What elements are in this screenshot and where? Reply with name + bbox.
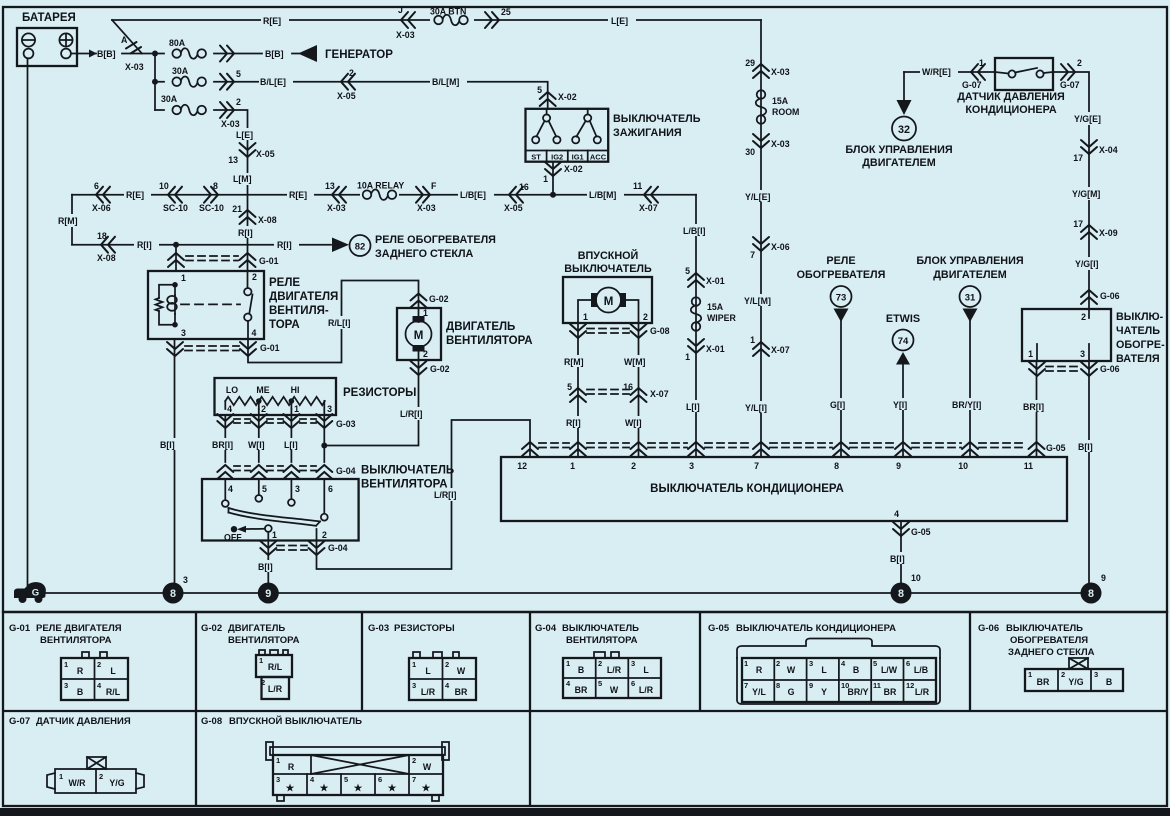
svg-text:ST: ST (531, 153, 541, 162)
svg-text:Y/G: Y/G (1068, 677, 1083, 687)
svg-text:5: 5 (567, 382, 572, 392)
svg-text:30A BTN: 30A BTN (430, 7, 466, 17)
fan switch SW2 (202, 479, 359, 543)
connector 25 top (485, 12, 499, 28)
svg-text:L/R: L/R (268, 684, 283, 694)
legend G-06 defogger switch (978, 623, 1123, 691)
svg-text:1: 1 (59, 772, 63, 781)
connector G-08 pin1 (570, 324, 586, 338)
label B[I] AC (888, 552, 912, 564)
connector G-01 below relay right (240, 342, 256, 356)
svg-text:B[B]: B[B] (97, 49, 116, 59)
svg-text:ЗАДНЕГО СТЕКЛА: ЗАДНЕГО СТЕКЛА (375, 248, 474, 260)
svg-text:7: 7 (744, 681, 748, 690)
svg-text:G: G (32, 588, 39, 599)
svg-text:X-03: X-03 (771, 67, 790, 77)
svg-text:1: 1 (570, 461, 575, 471)
connector 1 X-07 (753, 342, 769, 356)
svg-text:ОБОГРЕ-: ОБОГРЕ- (1116, 339, 1165, 351)
node 82 rear defogger relay (350, 235, 371, 256)
svg-text:ETWIS: ETWIS (886, 313, 920, 325)
svg-text:3: 3 (1080, 349, 1085, 359)
svg-text:ДВИГАТЕЛЬ: ДВИГАТЕЛЬ (228, 623, 285, 634)
svg-text:РЕЛЕ ДВИГАТЕЛЯ: РЕЛЕ ДВИГАТЕЛЯ (36, 623, 122, 634)
svg-text:82: 82 (355, 242, 366, 253)
svg-text:8: 8 (898, 588, 904, 600)
svg-text:ВЕНТИЛЯТОРА: ВЕНТИЛЯТОРА (446, 335, 533, 347)
label R/L[I] (327, 316, 360, 329)
svg-text:БАТАРЕЯ: БАТАРЕЯ (22, 12, 76, 24)
svg-text:G-01: G-01 (260, 343, 280, 353)
svg-text:ДВИГАТЕЛЬ: ДВИГАТЕЛЬ (446, 321, 515, 333)
svg-text:11: 11 (633, 181, 642, 191)
svg-text:X-09: X-09 (1099, 228, 1118, 238)
svg-text:ЧАТЕЛЬ: ЧАТЕЛЬ (1116, 325, 1160, 337)
svg-text:R: R (756, 665, 763, 675)
connector 13 X-03 (332, 187, 346, 203)
svg-text:80A: 80A (169, 38, 186, 48)
svg-text:5: 5 (873, 659, 877, 668)
svg-text:2: 2 (97, 660, 101, 669)
svg-text:8: 8 (213, 181, 218, 191)
svg-text:25: 25 (501, 7, 511, 17)
svg-text:X-06: X-06 (92, 203, 111, 213)
svg-text:ВЕНТИЛЯТОРА: ВЕНТИЛЯТОРА (566, 635, 638, 646)
wire 30A row3 L[E] (155, 110, 248, 271)
svg-text:G-05: G-05 (1046, 443, 1066, 453)
svg-text:G-06: G-06 (978, 623, 999, 634)
bottom black strip (0, 808, 1170, 816)
svg-text:G: G (788, 687, 795, 697)
svg-text:1: 1 (685, 352, 690, 362)
legend G-02 fan motor (201, 623, 300, 699)
svg-text:15A: 15A (772, 96, 789, 106)
svg-text:1: 1 (1028, 670, 1032, 679)
wire 30A row2 B/L[E] (155, 82, 548, 109)
svg-text:G-04: G-04 (328, 543, 348, 553)
connector 11 X-07 (644, 187, 658, 203)
svg-text:ME: ME (256, 385, 269, 395)
svg-text:5: 5 (537, 85, 542, 95)
svg-text:3: 3 (64, 681, 68, 690)
wire dashed G-04 lower link (277, 545, 307, 547)
svg-text:15A: 15A (707, 302, 724, 312)
connector 16 X-07 (631, 388, 647, 402)
svg-text:L/W: L/W (881, 665, 898, 675)
label Y/L[I] (744, 401, 778, 413)
svg-text:L/R: L/R (639, 685, 654, 695)
svg-text:1: 1 (294, 404, 299, 414)
svg-text:КОНДИЦИОНЕРА: КОНДИЦИОНЕРА (965, 104, 1057, 116)
svg-text:6: 6 (906, 659, 910, 668)
svg-text:2: 2 (99, 772, 103, 781)
fuse 15A ROOM (756, 90, 766, 124)
svg-text:X-05: X-05 (337, 91, 356, 101)
svg-text:2: 2 (261, 404, 266, 414)
resistor block R1 (215, 378, 337, 415)
svg-text:ВЕНТИЛЯТОРА: ВЕНТИЛЯТОРА (228, 635, 300, 646)
svg-text:X-03: X-03 (396, 30, 415, 40)
svg-text:R: R (77, 666, 84, 676)
svg-text:ВЫКЛЮЧАТЕЛЬ: ВЫКЛЮЧАТЕЛЬ (564, 263, 652, 275)
label BR[I] defogger (1022, 400, 1051, 412)
svg-text:16: 16 (623, 382, 633, 392)
svg-text:5: 5 (685, 266, 690, 276)
svg-text:5: 5 (598, 679, 602, 688)
legend grid lines (3, 612, 1167, 806)
label L[E] top (608, 14, 636, 26)
svg-text:1: 1 (412, 660, 416, 669)
legend G-01 fan motor relay (9, 623, 128, 700)
svg-text:★: ★ (286, 783, 295, 794)
wire dashed G-01 lower link (185, 345, 239, 347)
label L[E] column (234, 128, 260, 140)
label B[I] fan switch (256, 560, 280, 572)
wire left R[M] branch (71, 195, 73, 245)
svg-text:F: F (431, 181, 437, 191)
connector 5 X-01 (688, 273, 704, 287)
svg-text:X-01: X-01 (706, 276, 725, 286)
svg-text:X-07: X-07 (650, 389, 669, 399)
svg-text:2: 2 (445, 660, 449, 669)
svg-text:B/L[M]: B/L[M] (432, 77, 459, 87)
svg-text:X-03: X-03 (221, 119, 240, 129)
label W[I] intake (623, 416, 650, 428)
svg-text:L/B: L/B (914, 665, 928, 675)
legend G-04 fan switch (535, 623, 661, 698)
connector G-05 pin11 (1029, 442, 1045, 456)
svg-text:R/L: R/L (268, 662, 283, 672)
svg-text:ОБОГРЕВАТЕЛЯ: ОБОГРЕВАТЕЛЯ (1010, 635, 1088, 646)
wire battery negative to ground bus (27, 58, 29, 592)
svg-text:1: 1 (543, 174, 548, 184)
connector G-06 pin3 (1081, 362, 1097, 376)
wire BR/Y[I] column pin10 (969, 320, 971, 457)
label W[M] (622, 355, 654, 367)
connector G-04 pin6 (316, 465, 332, 479)
svg-text:R[E]: R[E] (126, 190, 144, 200)
label Y/G[M] (1071, 187, 1107, 200)
svg-text:1: 1 (583, 312, 588, 322)
svg-text:2: 2 (349, 68, 354, 78)
wire dashed G-01 link (186, 255, 238, 257)
svg-text:3: 3 (181, 328, 186, 338)
svg-text:9: 9 (1101, 573, 1106, 583)
svg-text:L[M]: L[M] (233, 174, 252, 184)
battery B1 (17, 12, 77, 66)
connector 5 X-07 (570, 388, 586, 402)
label Y/G[E] (1073, 112, 1106, 125)
svg-text:2: 2 (322, 530, 327, 540)
svg-text:ВЕНТИЛЯ-: ВЕНТИЛЯ- (269, 305, 329, 317)
svg-text:ВПУСКНОЙ: ВПУСКНОЙ (578, 249, 639, 262)
svg-text:9: 9 (809, 681, 813, 690)
label L[I] (684, 400, 706, 412)
svg-text:ЗАДНЕГО СТЕКЛА: ЗАДНЕГО СТЕКЛА (1008, 647, 1095, 658)
label Y/L[M] (743, 294, 779, 306)
svg-text:ГЕНЕРАТОР: ГЕНЕРАТОР (325, 49, 393, 61)
wire L/R[I] motor to junction (324, 360, 418, 446)
svg-text:2: 2 (643, 312, 648, 322)
svg-text:3: 3 (412, 681, 416, 690)
connector G-03 pin2 (251, 414, 267, 428)
svg-text:6: 6 (631, 679, 635, 688)
label R[E] right (287, 188, 314, 200)
svg-text:R[E]: R[E] (289, 190, 307, 200)
wire pressure switch to arrow 32 (903, 72, 905, 100)
connector G-05 pin10 (962, 442, 978, 456)
svg-text:X-03: X-03 (771, 139, 790, 149)
label R[E] top (261, 14, 289, 26)
svg-text:BR[I]: BR[I] (1023, 402, 1044, 412)
svg-text:G-08: G-08 (650, 326, 670, 336)
label L/R[I] fan sw (432, 488, 466, 501)
ground 8 left (163, 583, 184, 604)
connector G-05 below AC (893, 522, 909, 536)
main R[E] distribution wire (72, 194, 696, 196)
connector 5 X-02 ignition feed (540, 92, 556, 106)
connector 10 SC-10 (168, 187, 182, 203)
svg-text:5: 5 (344, 775, 348, 784)
connector G-05 pin1 (570, 442, 586, 456)
label BR[I] (211, 438, 240, 450)
connector 1 G-07 (971, 64, 985, 80)
connector G-06 pin1 (1029, 362, 1045, 376)
svg-text:★: ★ (388, 783, 397, 794)
svg-text:L: L (110, 666, 116, 676)
svg-text:31: 31 (965, 293, 976, 304)
connector F X-03 (416, 187, 430, 203)
connector 7 X-06 (753, 237, 769, 251)
svg-text:B/L[E]: B/L[E] (260, 77, 286, 87)
svg-text:ВЫКЛЮЧАТЕЛЬ: ВЫКЛЮЧАТЕЛЬ (613, 113, 701, 125)
connector G-05 pin12 (522, 442, 538, 456)
svg-text:W: W (610, 685, 619, 695)
svg-text:SC-10: SC-10 (199, 203, 224, 213)
svg-text:ВЕНТИЛЯТОРА: ВЕНТИЛЯТОРА (40, 635, 112, 646)
svg-text:73: 73 (836, 293, 847, 304)
svg-text:1: 1 (750, 335, 755, 345)
legend G-05 AC switch (708, 623, 940, 704)
svg-text:Y/L[E]: Y/L[E] (745, 192, 770, 202)
svg-text:4: 4 (228, 484, 233, 494)
svg-text:10: 10 (958, 461, 968, 471)
connector A X-03 on diagonal (126, 42, 141, 54)
label R[I] left (134, 238, 159, 250)
svg-text:G-06: G-06 (1100, 364, 1120, 374)
svg-text:BR: BR (455, 687, 468, 697)
connector 17 X-04 (1081, 140, 1097, 154)
connector G-08 pin2 (631, 324, 647, 338)
svg-text:BR/Y: BR/Y (847, 687, 868, 697)
node engine control module 32 (892, 117, 916, 141)
svg-text:ОБОГРЕВАТЕЛЯ: ОБОГРЕВАТЕЛЯ (797, 269, 886, 281)
svg-text:Y: Y (821, 687, 827, 697)
fuse 30A row3 (172, 105, 206, 115)
label B/L[M] (430, 75, 467, 87)
svg-text:29: 29 (745, 58, 755, 68)
svg-text:2: 2 (1077, 58, 1082, 68)
ground bus wire (40, 592, 1091, 594)
svg-text:BR: BR (575, 685, 588, 695)
label R[M] (57, 214, 84, 227)
connector 21 X-08 (240, 210, 256, 224)
svg-text:21: 21 (232, 204, 242, 214)
svg-text:R[I]: R[I] (277, 240, 292, 250)
svg-text:G-07: G-07 (1060, 80, 1080, 90)
svg-text:L/B[I]: L/B[I] (683, 226, 706, 236)
label R[E] mid (124, 188, 151, 200)
svg-text:X-04: X-04 (1099, 145, 1118, 155)
connector G-05 pin3 (688, 442, 704, 456)
svg-text:LO: LO (226, 385, 238, 395)
svg-text:L[I]: L[I] (284, 440, 298, 450)
wire ignition output (552, 162, 554, 195)
svg-text:9: 9 (896, 461, 901, 471)
outer frame of schematic area (3, 7, 1167, 612)
svg-text:2: 2 (631, 461, 636, 471)
svg-text:РЕЛЕ: РЕЛЕ (269, 277, 300, 289)
svg-text:W: W (457, 666, 466, 676)
svg-text:L[I]: L[I] (686, 402, 700, 412)
connector 1 X-01 (688, 339, 704, 353)
svg-text:B[I]: B[I] (890, 554, 905, 564)
svg-text:L: L (821, 665, 827, 675)
svg-text:74: 74 (898, 336, 909, 347)
svg-text:ВЫКЛЮЧАТЕЛЬ КОНДИЦИОНЕРА: ВЫКЛЮЧАТЕЛЬ КОНДИЦИОНЕРА (650, 483, 844, 495)
svg-text:ДВИГАТЕЛЕМ: ДВИГАТЕЛЕМ (933, 269, 1007, 281)
AC pressure switch SW4 (995, 58, 1053, 90)
svg-text:РЕЛЕ: РЕЛЕ (826, 255, 855, 267)
svg-text:L/R[I]: L/R[I] (400, 409, 423, 419)
svg-text:1: 1 (1028, 349, 1033, 359)
svg-text:1: 1 (181, 273, 186, 283)
svg-text:BR/Y[I]: BR/Y[I] (952, 400, 981, 410)
label W/R[E] (920, 65, 958, 77)
AC switch box SW6 (501, 457, 1067, 521)
svg-text:L/R: L/R (421, 687, 436, 697)
connector G-01 left (168, 253, 184, 267)
R[I] distribution wire (72, 244, 331, 246)
svg-text:X-08: X-08 (97, 253, 116, 263)
wire dashed G-04 links (234, 465, 250, 467)
svg-text:BR[I]: BR[I] (212, 440, 233, 450)
connector G-04 pin1 below (260, 541, 276, 555)
svg-text:B: B (77, 687, 83, 697)
svg-text:W: W (787, 665, 796, 675)
svg-text:X-03: X-03 (327, 203, 346, 213)
connector 8 SC-10 (204, 187, 218, 203)
svg-text:1: 1 (259, 656, 263, 665)
svg-text:BR: BR (1037, 677, 1050, 687)
svg-text:3: 3 (183, 575, 188, 585)
svg-text:3: 3 (327, 404, 332, 414)
svg-text:M: M (414, 330, 424, 342)
svg-text:РЕЛЕ ОБОГРЕВАТЕЛЯ: РЕЛЕ ОБОГРЕВАТЕЛЯ (375, 234, 496, 246)
svg-text:Y[I]: Y[I] (893, 400, 907, 410)
svg-text:X-07: X-07 (771, 345, 790, 355)
svg-text:1: 1 (979, 58, 984, 68)
svg-text:6: 6 (328, 484, 333, 494)
node L/R junction (321, 443, 327, 449)
svg-text:2: 2 (1061, 670, 1065, 679)
svg-text:L/R: L/R (607, 665, 622, 675)
svg-text:БЛОК УПРАВЛЕНИЯ: БЛОК УПРАВЛЕНИЯ (916, 255, 1023, 267)
svg-text:X-07: X-07 (639, 203, 658, 213)
svg-text:30A: 30A (161, 94, 178, 104)
wire B[I] AC pin4 to ground (900, 521, 902, 593)
svg-text:G-04: G-04 (336, 466, 356, 476)
svg-text:18: 18 (97, 231, 107, 241)
label R[I] right (274, 238, 299, 250)
svg-text:2: 2 (776, 659, 780, 668)
connector G-04 pin4 (217, 465, 233, 479)
wire BR[I] defogger pin1 to AC pin11 (1036, 361, 1038, 457)
connector G-01 right (240, 253, 256, 267)
svg-text:17: 17 (1073, 219, 1083, 229)
svg-text:R[I]: R[I] (566, 418, 581, 428)
svg-text:16: 16 (519, 182, 529, 192)
connector 13 X-05 (240, 143, 256, 157)
svg-text:5: 5 (236, 69, 241, 79)
svg-text:R/L: R/L (106, 687, 121, 697)
svg-text:8: 8 (1088, 588, 1094, 600)
svg-text:L[E]: L[E] (236, 130, 253, 140)
svg-text:G-07: G-07 (962, 80, 982, 90)
svg-text:BR: BR (884, 687, 897, 697)
wire W[M]/W[I] column pin2 (638, 323, 640, 457)
svg-text:ВЫКЛЮЧАТЕЛЬ: ВЫКЛЮЧАТЕЛЬ (361, 465, 454, 477)
svg-text:8: 8 (776, 681, 780, 690)
svg-text:R[M]: R[M] (564, 357, 584, 367)
svg-text:12: 12 (906, 681, 914, 690)
svg-text:G-02: G-02 (429, 294, 449, 304)
svg-text:WIPER: WIPER (707, 313, 736, 323)
svg-text:R[M]: R[M] (58, 216, 78, 226)
svg-text:G-04: G-04 (535, 623, 557, 634)
legend G-03 resistors (368, 623, 476, 700)
svg-text:1: 1 (566, 659, 570, 668)
svg-text:11: 11 (873, 681, 881, 690)
fuse 15A WIPER (691, 297, 701, 331)
connector 2 G-07 (1061, 64, 1075, 80)
connector 29 X-03 (753, 64, 769, 78)
svg-text:G[I]: G[I] (830, 400, 845, 410)
svg-text:ВЫКЛЮ-: ВЫКЛЮ- (1116, 311, 1164, 323)
svg-text:8: 8 (170, 588, 176, 600)
svg-text:G-05: G-05 (911, 527, 931, 537)
connector G-05 pin2 (631, 442, 647, 456)
connector 2 X-03 row3 (220, 102, 234, 118)
svg-text:★: ★ (320, 783, 329, 794)
connector chevron row1 (220, 46, 234, 62)
svg-text:ВЫКЛЮЧАТЕЛЬ КОНДИЦИОНЕРА: ВЫКЛЮЧАТЕЛЬ КОНДИЦИОНЕРА (736, 623, 896, 634)
svg-text:10: 10 (159, 181, 169, 191)
svg-text:10: 10 (911, 573, 921, 583)
svg-text:ВПУСКНОЙ ВЫКЛЮЧАТЕЛЬ: ВПУСКНОЙ ВЫКЛЮЧАТЕЛЬ (229, 715, 362, 727)
wire R[I] into relay pin1 (175, 245, 177, 271)
svg-text:R/L[I]: R/L[I] (328, 318, 351, 328)
arrow on B[B] wire (89, 50, 97, 58)
svg-text:W[I]: W[I] (625, 418, 642, 428)
svg-text:W/R: W/R (68, 778, 86, 788)
label W[I] (246, 438, 272, 450)
wire L/B[I] wiper column (695, 195, 697, 457)
svg-text:X-08: X-08 (258, 215, 277, 225)
connector 1 X-02 (545, 162, 561, 176)
svg-text:13: 13 (325, 181, 335, 191)
label Y/G[I] (1074, 257, 1106, 270)
